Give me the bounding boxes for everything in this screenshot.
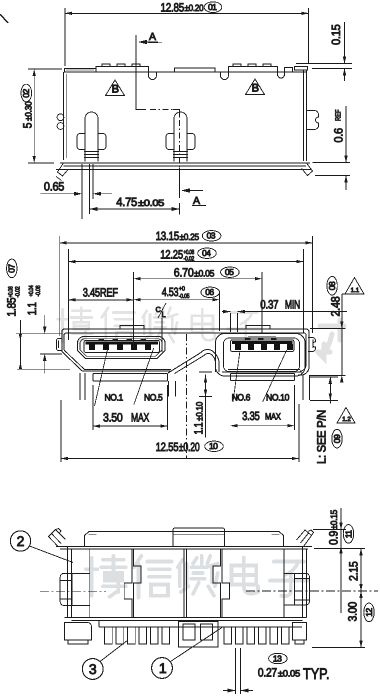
top view left foot	[58, 163, 69, 176]
bottom view plate center segment raised	[173, 528, 225, 530]
dimension 12.85±0.20 (01) top width	[65, 8, 309, 66]
svg-text:12.25: 12.25	[160, 248, 183, 262]
pin leader NO.10	[263, 350, 287, 402]
svg-text:02: 02	[21, 89, 31, 98]
dimension L SEE P/N (09)	[310, 377, 338, 401]
svg-text:3.35: 3.35	[242, 409, 260, 423]
svg-text:-0.06: -0.06	[35, 285, 42, 297]
dimension 4.53 (06)	[219, 293, 221, 331]
dimension 3.35 MAX	[294, 385, 296, 430]
front view shell right end	[298, 329, 309, 375]
bottom view inner walls	[89, 549, 91, 618]
pin leader NO.1	[95, 349, 108, 406]
front view left latch tab	[57, 339, 63, 351]
top view left raised plate with bumps	[96, 67, 149, 73]
dimension 3.00 (12)	[360, 591, 362, 648]
bottom view seam 3 with notch	[213, 549, 221, 618]
svg-text:01: 01	[208, 2, 217, 12]
dimension 12.55±0.20 (10)	[61, 400, 299, 462]
svg-text:MIN: MIN	[285, 298, 300, 312]
svg-text:1.1: 1.1	[25, 302, 39, 316]
left socket D-shape outer	[78, 337, 166, 359]
bottom view left top foot	[49, 529, 66, 547]
svg-text:B: B	[112, 84, 119, 96]
svg-text:6.70: 6.70	[174, 266, 194, 280]
bottom view top plate	[85, 532, 284, 547]
svg-text:12.85: 12.85	[161, 0, 185, 14]
front view bottom lip left (3.50 MAX)	[93, 374, 168, 382]
svg-text:1.1: 1.1	[192, 422, 206, 434]
bottom view right latch centerline	[246, 590, 378, 592]
dimension 5±0.30 (02) left height	[28, 69, 62, 163]
top view small notch and bump right	[278, 68, 293, 79]
dimension 2.48 (08) right	[310, 329, 345, 376]
left socket D-shape inner	[80, 339, 162, 357]
front view shell top edge	[64, 328, 306, 330]
left socket pins NO.1-NO.5	[89, 345, 95, 351]
top view board-lock post left	[77, 112, 106, 161]
svg-text:-0.02: -0.02	[14, 286, 21, 298]
svg-text:07: 07	[7, 264, 17, 273]
svg-text:±0.05: ±0.05	[194, 268, 214, 278]
svg-text:MAX: MAX	[265, 412, 281, 422]
svg-text:+0.08: +0.08	[7, 286, 14, 298]
right socket outer	[216, 334, 306, 377]
svg-text:12.55: 12.55	[156, 440, 179, 454]
svg-text:12: 12	[364, 608, 374, 617]
svg-text:2: 2	[17, 533, 25, 549]
svg-text:4.53: 4.53	[162, 285, 179, 299]
svg-text:06: 06	[205, 287, 214, 297]
bottom view left end leg block	[65, 623, 92, 641]
svg-text:±0.25: ±0.25	[180, 232, 200, 242]
top view board-lock post right	[166, 112, 195, 161]
centerline mark	[158, 303, 166, 318]
svg-text:0.37: 0.37	[260, 298, 279, 312]
svg-text:REF: REF	[333, 109, 342, 121]
svg-text:3.50: 3.50	[103, 411, 123, 425]
svg-text:NO.10: NO.10	[266, 392, 289, 402]
bottom view center tongue with holes	[178, 622, 218, 648]
bottom view plate seams	[173, 530, 225, 547]
svg-text:0.9: 0.9	[326, 530, 340, 545]
revision triangle 1.2	[337, 408, 355, 424]
front view top plate bump right	[246, 326, 270, 330]
dimension 3.45REF	[68, 299, 133, 301]
left socket pin bar top marks	[99, 338, 147, 340]
svg-text:4.75: 4.75	[116, 195, 137, 209]
corner mark	[0, 14, 8, 23]
top view center thin plate	[175, 68, 216, 72]
svg-text:±0.20: ±0.20	[179, 440, 200, 454]
front view right leg	[303, 375, 310, 400]
bottom view right end leg block	[293, 623, 307, 641]
svg-text:-0.02: -0.02	[184, 255, 195, 262]
svg-text:L: L	[162, 310, 166, 319]
svg-text:3.00: 3.00	[346, 601, 360, 621]
watermark logo arrow	[318, 320, 344, 358]
svg-text:1.1: 1.1	[351, 287, 360, 294]
svg-text:10: 10	[209, 441, 218, 451]
svg-text:0.6: 0.6	[332, 128, 346, 143]
svg-text:1.2: 1.2	[342, 416, 351, 423]
bottom view seam 1 with notch	[124, 549, 132, 618]
svg-text:13.15: 13.15	[156, 229, 180, 243]
balloon 2	[10, 531, 30, 551]
svg-text:±0.30: ±0.30	[23, 101, 33, 121]
top view notch dip left	[149, 72, 157, 80]
svg-text:MAX: MAX	[131, 411, 149, 425]
balloon 1	[152, 658, 173, 679]
top view right side latch bump	[307, 111, 319, 130]
pin leader NO.5	[134, 348, 154, 405]
right socket pin housing outline	[231, 340, 295, 352]
dimension 0.37 MIN	[231, 313, 238, 332]
bottom view right latch	[284, 573, 310, 605]
front view right latch tab	[308, 338, 316, 352]
front view center dashed line	[186, 334, 188, 458]
top view right foot	[302, 163, 313, 176]
right socket pins NO.6-NO.10	[235, 344, 241, 350]
svg-text:04: 04	[202, 248, 211, 258]
front view center bridge	[168, 350, 219, 373]
dimension 0.65 lower left	[82, 164, 93, 219]
svg-text:11: 11	[343, 530, 353, 539]
top view right flat tab	[295, 67, 308, 71]
dimension 4.75±0.05 bottom	[89, 164, 179, 215]
balloon 3	[82, 659, 103, 680]
dimension 0.6 REF right	[313, 163, 351, 176]
bottom view comb back bar	[99, 621, 302, 628]
revision triangle 1.1	[345, 278, 364, 295]
dimension 2.15	[314, 548, 365, 550]
dimension 12.25 (04)	[68, 249, 303, 340]
section line A-A stepped cut	[135, 35, 137, 103]
section arrow A bottom	[183, 190, 203, 192]
bottom view left latch	[60, 573, 90, 605]
svg-text:05: 05	[225, 267, 234, 277]
front view center leg	[169, 381, 176, 397]
svg-text:09: 09	[332, 434, 342, 443]
svg-text:2.48: 2.48	[329, 296, 343, 317]
svg-text:0.65: 0.65	[44, 179, 65, 193]
dimension 3.50 MAX	[93, 385, 168, 430]
right socket inner	[224, 338, 300, 372]
svg-text:TYP.: TYP.	[303, 666, 330, 683]
svg-text:0.27: 0.27	[258, 666, 278, 680]
dimension 0.9±0.15 (11)	[313, 529, 346, 531]
dimension 6.70±0.05 (05)	[134, 272, 263, 348]
svg-text:NO.6: NO.6	[232, 392, 251, 402]
svg-text:A: A	[149, 31, 156, 43]
top view B flag triangle left	[106, 80, 125, 96]
svg-text:2.15: 2.15	[347, 561, 361, 581]
svg-text:±0.15: ±0.15	[329, 510, 339, 530]
left socket pin housing outline	[84, 340, 160, 352]
front view bottom edge under left socket	[82, 370, 171, 372]
bottom view right top foot	[297, 530, 314, 547]
top view bottom rail lines	[60, 162, 310, 164]
svg-text:B: B	[252, 83, 259, 95]
svg-text:L: SEE P/N: L: SEE P/N	[315, 410, 329, 464]
svg-text:3.45REF: 3.45REF	[83, 286, 118, 300]
bottom view comb teeth left group	[105, 627, 170, 644]
svg-text:13: 13	[273, 653, 282, 663]
svg-text:+0: +0	[179, 286, 186, 293]
left socket pin bar	[86, 342, 159, 345]
right socket pin bar top marks	[245, 338, 277, 340]
top view right raised plate with bumps	[229, 67, 278, 73]
top view B flag triangle right	[246, 79, 265, 95]
svg-text:±0.10: ±0.10	[194, 402, 204, 421]
front view left leg	[80, 373, 85, 400]
top view notch dip right	[221, 72, 229, 80]
watermark row 1	[58, 308, 261, 344]
bottom view comb teeth right group	[224, 627, 289, 644]
front view shell left end	[62, 329, 64, 352]
bottom view left latch centerline	[40, 590, 106, 592]
top view left flat tab	[65, 68, 97, 72]
svg-text:±0.05: ±0.05	[278, 669, 300, 679]
bottom view center seam	[184, 549, 186, 618]
watermark row 2	[86, 556, 308, 598]
svg-text:NO.5: NO.5	[144, 392, 163, 402]
front view bottom edge under right socket	[222, 370, 302, 373]
front view bottom lip right (3.35 MAX)	[231, 374, 295, 381]
svg-text:0.15: 0.15	[329, 24, 343, 45]
right socket pin bar	[232, 341, 293, 344]
svg-text:3: 3	[89, 661, 97, 677]
right socket top inner plate	[248, 334, 276, 337]
dimension 1.1±0.10 center leg	[205, 375, 207, 438]
section arrow A top	[140, 41, 158, 43]
dimension 1.85 (07) left	[7, 259, 17, 278]
svg-text:±0.05: ±0.05	[138, 198, 164, 208]
dimension 13.15±0.25 (03)	[60, 236, 313, 336]
svg-text:+0.04: +0.04	[28, 285, 35, 297]
svg-text:5: 5	[21, 122, 35, 128]
pin leader NO.6	[233, 352, 240, 402]
svg-text:±0.20: ±0.20	[185, 3, 204, 13]
svg-text:NO.1: NO.1	[105, 392, 124, 402]
dimension 0.27±0.05 TYP (13)	[236, 648, 241, 694]
front view shell bottom left diagonal	[62, 352, 82, 372]
svg-text:1: 1	[159, 660, 167, 676]
bottom view body outline	[56, 546, 312, 548]
front view top plate bump left	[120, 326, 144, 330]
top view body outline	[64, 71, 306, 73]
svg-text:08: 08	[327, 281, 337, 290]
svg-text:03: 03	[207, 231, 216, 241]
dimension 0.15 right top	[296, 64, 352, 69]
svg-text:-0.05: -0.05	[179, 293, 190, 300]
svg-text:1.85: 1.85	[4, 297, 18, 317]
top view left edge dimples	[57, 114, 64, 121]
